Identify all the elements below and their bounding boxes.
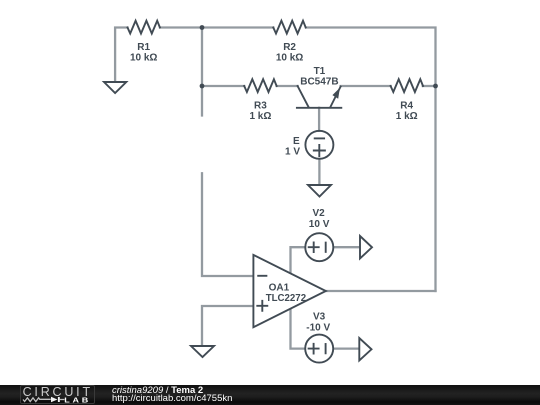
wire top (R1 to R2) [160, 26, 273, 28]
svg-text:1 kΩ: 1 kΩ [249, 111, 271, 122]
svg-text:R1: R1 [137, 42, 150, 53]
svg-text:R2: R2 [283, 42, 296, 53]
svg-text:R3: R3 [254, 100, 267, 111]
port flag (V2 output) [360, 236, 372, 259]
svg-text:T1: T1 [314, 66, 326, 77]
logo diode play symbol [51, 396, 57, 402]
transistor T1 base bar [297, 107, 341, 109]
CircuitLab logo: resistor+diode glyph [0, 385, 110, 405]
ground (below E) [308, 185, 331, 197]
voltage source V2 circle [305, 233, 333, 261]
wire V3 to port [334, 347, 360, 349]
wire transistor base down to E [318, 108, 320, 131]
ground (below R1) [104, 82, 126, 93]
logo LAB text [64, 396, 91, 404]
V3 plus sign [309, 344, 319, 354]
wire op-amp output to right rail [326, 290, 436, 292]
svg-text:TLC2272: TLC2272 [266, 293, 307, 304]
svg-text:1 kΩ: 1 kΩ [396, 111, 418, 122]
resistor R1 [128, 21, 160, 34]
node junction dot (row2 left) [200, 84, 205, 89]
resistor R2 [273, 21, 305, 34]
V3 minus bar [325, 344, 327, 353]
svg-text:10 kΩ: 10 kΩ [276, 53, 303, 64]
wire V2 to port [334, 246, 360, 248]
wire E to ground [318, 159, 320, 185]
wire top right corner down right rail [306, 28, 436, 292]
wire R4 to right rail [423, 85, 436, 87]
CircuitLab logo frame [20, 385, 95, 404]
E minus sign [315, 137, 324, 139]
svg-text:10 kΩ: 10 kΩ [130, 53, 157, 64]
svg-text:R4: R4 [400, 100, 413, 111]
svg-text:1 V: 1 V [285, 147, 300, 158]
op-amp minus input symbol [258, 275, 266, 277]
resistor R3 [244, 79, 276, 92]
CircuitLab logo: CIRCUIT [23, 385, 93, 399]
voltage source V3 circle [305, 335, 333, 363]
port flag (V3 output) [359, 338, 371, 361]
svg-text:10 V: 10 V [309, 219, 330, 230]
wire stub from top junction down (open end) [201, 28, 203, 116]
wire op-amp V- pin down to V3 [291, 309, 305, 349]
op-amp OA1 triangle [253, 255, 325, 327]
transistor T1 collector diagonal [298, 86, 309, 107]
transistor T1 emitter diagonal [330, 87, 340, 108]
wire emitter to R4 [341, 85, 391, 87]
V2 minus bar [325, 243, 327, 252]
op-amp plus input symbol [257, 301, 267, 311]
wire op-amp V+ pin up to V2 [291, 247, 305, 273]
E plus sign [314, 145, 325, 156]
svg-text:E: E [293, 136, 300, 147]
node junction dot (right rail / R4) [433, 84, 438, 89]
svg-text:-10 V: -10 V [306, 322, 330, 333]
footer bar [0, 385, 540, 405]
logo resistor zigzag [23, 397, 51, 401]
wire node row2 to R3 [202, 85, 244, 87]
node junction dot (R1/R2 top) [200, 25, 205, 30]
V2 plus sign [309, 242, 319, 252]
footer url [112, 393, 232, 404]
wire non-inverting input to ground [202, 306, 253, 346]
ground (below op-amp + input) [191, 346, 214, 357]
voltage source E circle [305, 131, 333, 159]
svg-text:V3: V3 [313, 312, 326, 323]
svg-text:BC547B: BC547B [300, 77, 338, 88]
wire lower stub to op-amp inverting input [202, 173, 253, 276]
logo wire to LAB [60, 398, 65, 400]
wire R3 to transistor collector [277, 85, 298, 87]
footer title: cristina9209 / Tema 2 [112, 385, 203, 396]
transistor T1 emitter arrowhead [332, 88, 340, 99]
resistor R4 [391, 79, 423, 92]
wire R1 left lead and down [115, 28, 127, 83]
svg-text:V2: V2 [312, 208, 325, 219]
logo diode bar [58, 397, 60, 402]
